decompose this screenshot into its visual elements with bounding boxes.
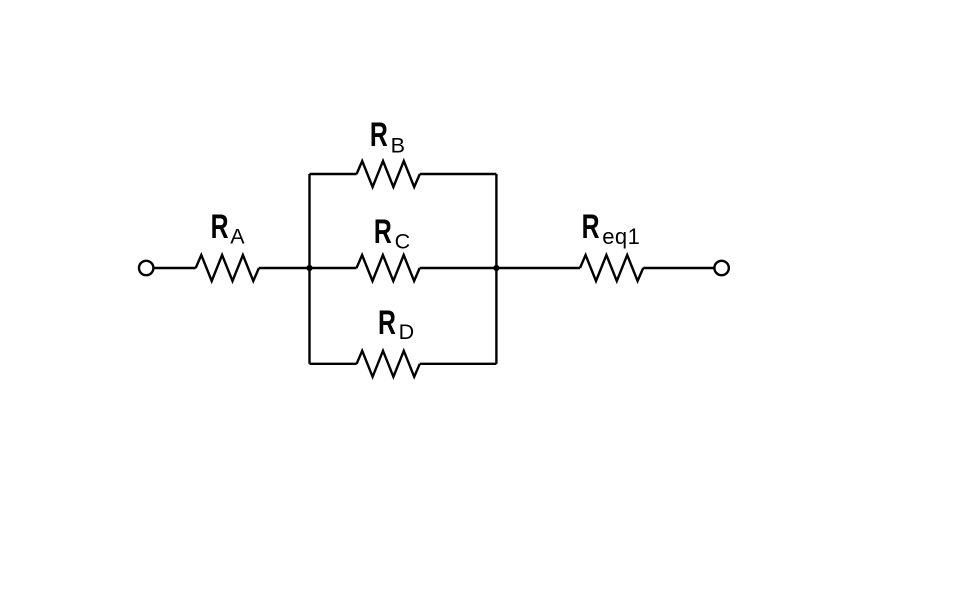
resistor Req1 [580,255,643,281]
svg-text:eq1: eq1 [602,224,640,249]
wire Req1 to terminal T2 [643,267,714,269]
wire left vertical bus of parallel section [308,174,310,364]
label RB [370,116,405,157]
wire node N2 to Req1 [496,267,580,269]
resistor RC [357,255,420,281]
wire bottom rail right [420,363,497,365]
wire top rail left [310,173,357,175]
svg-text:R: R [211,208,229,246]
svg-text:R: R [378,304,396,342]
wire middle right [420,267,497,269]
terminal T1 (left input) [139,261,153,275]
node N2 junction dot [493,265,499,271]
label RA [211,208,246,248]
label RD [378,304,414,344]
svg-text:R: R [374,213,392,251]
resistor RB [357,161,420,187]
svg-text:R: R [582,208,600,246]
wire bottom rail left [310,363,357,365]
resistor RA [196,255,259,281]
wire top rail right [420,173,497,175]
label Req1 [582,208,641,249]
wire RA to node N1 [259,267,310,269]
wire middle left [310,267,357,269]
wire right vertical bus of parallel section [495,174,497,364]
node N1 junction dot [306,265,312,271]
svg-text:D: D [399,320,415,344]
wire T1 to RA [154,267,196,269]
svg-text:A: A [230,225,245,249]
svg-text:B: B [391,134,405,158]
svg-text:R: R [370,116,388,154]
svg-text:C: C [395,229,411,253]
label RC [374,213,410,253]
terminal T2 (right output) [714,261,728,275]
resistor RD [357,351,420,377]
